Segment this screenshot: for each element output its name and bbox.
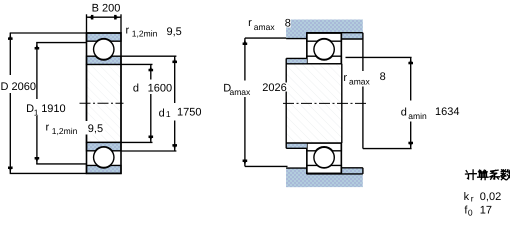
svg-text:r: r [46,122,50,134]
svg-text:d: d [401,107,407,119]
svg-text:1,2min: 1,2min [132,29,158,39]
svg-text:200: 200 [102,2,120,14]
svg-text:1600: 1600 [148,82,172,94]
svg-text:1750: 1750 [177,106,201,118]
svg-text:k: k [464,191,470,203]
svg-text:amax: amax [349,77,371,87]
svg-text:0: 0 [468,207,473,217]
svg-text:r: r [248,17,252,29]
svg-text:2060: 2060 [12,81,36,93]
svg-text:2026: 2026 [262,82,286,94]
svg-text:d: d [133,82,139,94]
svg-text:d: d [159,108,165,120]
svg-text:1910: 1910 [41,103,65,115]
svg-text:amax: amax [254,22,276,32]
svg-text:r: r [126,24,130,36]
svg-text:amax: amax [230,87,252,97]
svg-text:r: r [471,194,474,204]
svg-text:17: 17 [480,205,492,217]
svg-text:r: r [343,72,347,84]
svg-text:1: 1 [34,107,39,117]
svg-text:0,02: 0,02 [480,191,501,203]
svg-text:1634: 1634 [435,106,459,118]
svg-text:B: B [92,2,99,14]
svg-text:D: D [1,81,9,93]
svg-text:1,2min: 1,2min [52,126,78,136]
svg-text:9,5: 9,5 [167,26,182,38]
svg-text:1: 1 [166,109,171,119]
svg-text:amin: amin [408,111,427,121]
svg-text:9,5: 9,5 [88,123,103,135]
svg-text:8: 8 [285,18,291,30]
svg-text:8: 8 [380,71,386,83]
